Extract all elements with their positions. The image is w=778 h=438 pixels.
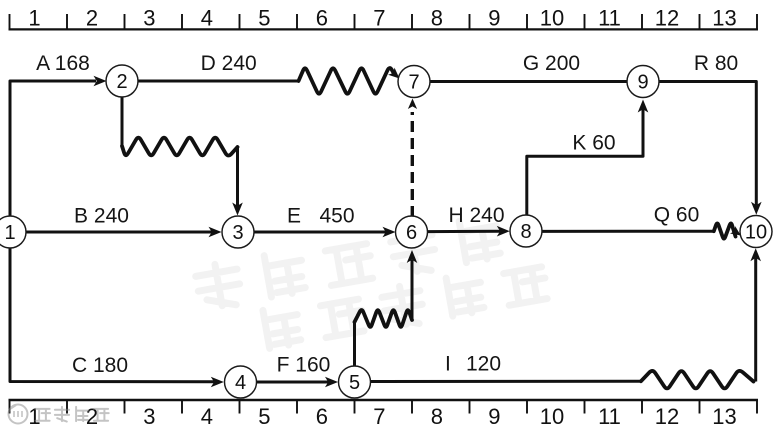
svg-text:10: 10 [745,222,767,244]
svg-text:9: 9 [637,72,648,94]
svg-text:6: 6 [316,6,328,31]
svg-text:450: 450 [320,205,355,228]
svg-text:R 80: R 80 [694,52,738,75]
svg-text:C 180: C 180 [72,354,128,377]
svg-text:3: 3 [143,6,155,31]
svg-text:I: I [445,353,451,376]
svg-text:7: 7 [373,404,385,429]
svg-text:13: 13 [712,404,736,429]
svg-text:7: 7 [373,6,385,31]
svg-text:G 200: G 200 [523,52,580,75]
svg-text:3: 3 [143,404,155,429]
svg-text:B 240: B 240 [74,205,129,228]
svg-text:Q 60: Q 60 [654,204,700,227]
svg-text:5: 5 [258,404,270,429]
svg-text:10: 10 [540,404,564,429]
svg-text:2: 2 [86,6,98,31]
svg-text:8: 8 [431,404,443,429]
svg-text:K 60: K 60 [572,132,615,155]
svg-text:13: 13 [712,6,736,31]
svg-text:120: 120 [466,353,501,376]
svg-text:F 160: F 160 [277,354,331,377]
svg-text:H 240: H 240 [448,204,504,227]
svg-text:8: 8 [520,221,531,243]
svg-text:1: 1 [4,222,15,244]
svg-text:1: 1 [28,6,40,31]
svg-text:9: 9 [488,6,500,31]
svg-text:11: 11 [598,404,621,429]
svg-text:E: E [287,205,301,228]
svg-text:5: 5 [258,6,270,31]
svg-text:A 168: A 168 [36,52,90,75]
svg-text:7: 7 [408,72,419,94]
svg-text:4: 4 [235,372,246,394]
svg-text:8: 8 [431,6,443,31]
svg-text:2: 2 [116,71,127,93]
svg-text:9: 9 [488,404,500,429]
svg-text:6: 6 [316,404,328,429]
svg-text:6: 6 [406,222,417,244]
svg-text:3: 3 [232,222,243,244]
svg-text:4: 4 [201,404,213,429]
svg-text:5: 5 [349,372,360,394]
svg-text:D 240: D 240 [201,52,257,75]
svg-text:4: 4 [201,6,213,31]
svg-text:11: 11 [598,6,621,31]
svg-text:10: 10 [540,6,564,31]
svg-text:12: 12 [655,404,679,429]
svg-text:12: 12 [655,6,679,31]
